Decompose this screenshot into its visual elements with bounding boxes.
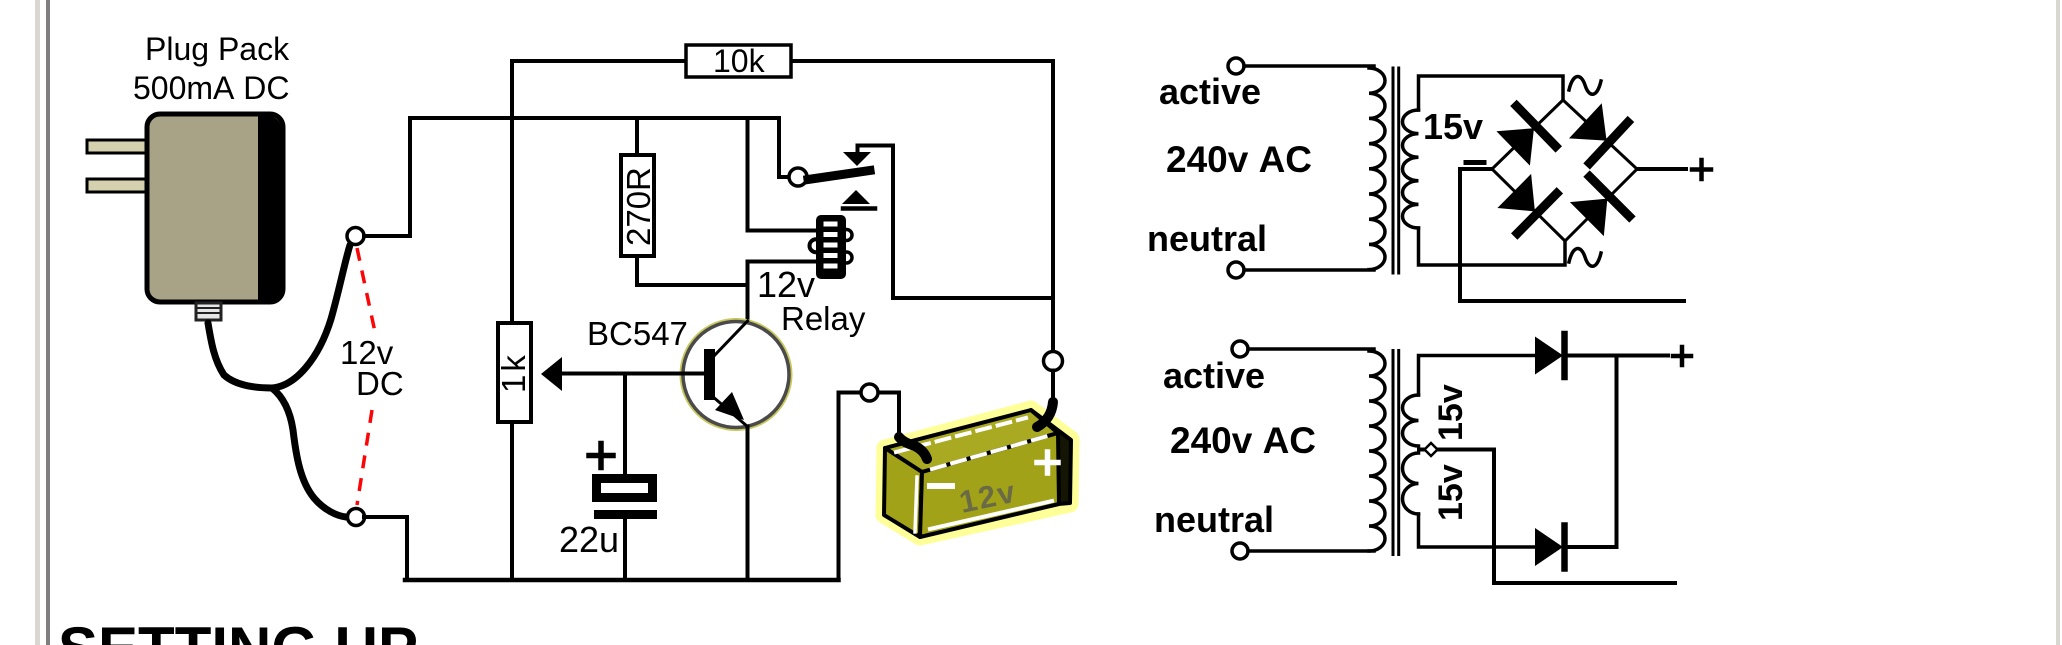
svg-text:neutral: neutral xyxy=(1154,499,1274,540)
bridge AC squiggle bottom xyxy=(1569,249,1601,267)
T1 secondary winding xyxy=(1403,110,1419,228)
base arrow head xyxy=(541,357,562,391)
switch top contact triangle xyxy=(843,152,871,166)
bridge plus sign xyxy=(1692,160,1711,179)
T1 wire active xyxy=(1244,64,1374,68)
T1 wire secondary bottom to bridge xyxy=(1419,228,1566,265)
transistor emitter arrow xyxy=(715,392,744,420)
relay coil body xyxy=(816,215,846,279)
node DC plus terminal xyxy=(347,228,364,245)
left dark table border xyxy=(46,0,50,645)
svg-text:10k: 10k xyxy=(713,43,766,79)
bridge plus output wire xyxy=(1637,167,1686,171)
svg-text:1k: 1k xyxy=(495,352,532,393)
T2 wire secondary bottom to diode xyxy=(1419,514,1536,547)
plug pack cord xyxy=(208,245,350,517)
svg-text:Plug Pack: Plug Pack xyxy=(145,31,290,67)
T1 neutral terminal xyxy=(1228,262,1244,278)
capacitor C1 plus sign xyxy=(589,444,613,468)
node DC minus terminal xyxy=(348,509,365,526)
battery minus lead hook xyxy=(899,437,927,459)
T1 primary winding xyxy=(1369,68,1385,270)
wire capacitor to bottom rail xyxy=(623,519,627,580)
T2 secondary winding lower xyxy=(1403,453,1419,514)
wire top 10k rail xyxy=(512,59,1053,63)
wire base to capacitor xyxy=(623,374,627,475)
switch bottom contact xyxy=(842,190,875,209)
bridge minus output wire xyxy=(1460,169,1684,301)
svg-text:active: active xyxy=(1163,355,1265,396)
T2 centre tap node xyxy=(1425,443,1438,456)
right light table border xyxy=(2056,0,2060,645)
T2 wire neutral xyxy=(1248,549,1374,553)
T2 neutral terminal xyxy=(1232,543,1248,559)
diode D5 top xyxy=(1535,334,1565,377)
switch lever xyxy=(808,171,870,180)
battery right face xyxy=(1031,410,1071,504)
wire diode outputs join xyxy=(1615,356,1619,548)
wire base xyxy=(558,372,704,376)
wire 270R bottom to collector node xyxy=(637,256,748,285)
bridge diamond xyxy=(1492,100,1637,241)
wire battery minus to bottom rail xyxy=(837,393,841,581)
svg-text:240v AC: 240v AC xyxy=(1170,420,1316,461)
label 12v Relay xyxy=(757,264,866,337)
svg-text:neutral: neutral xyxy=(1147,218,1267,259)
wire battery plus lead xyxy=(1051,371,1055,403)
bridge diode D1 top-left xyxy=(1494,106,1556,168)
battery minus sign xyxy=(930,483,952,489)
label Plug Pack xyxy=(133,31,290,106)
svg-text:15v: 15v xyxy=(1423,106,1483,147)
red dashed polarity line xyxy=(357,248,375,505)
svg-text:15v: 15v xyxy=(1432,384,1470,441)
wire top rail xyxy=(410,116,779,120)
battery highlight lines xyxy=(896,418,1052,532)
battery front face xyxy=(920,433,1059,537)
battery plus lead hook xyxy=(1037,402,1053,427)
plug pack cord connector nub xyxy=(196,303,221,320)
battery plus sign xyxy=(1037,452,1058,473)
resistor 10k xyxy=(686,43,791,79)
wire 10k right to battery plus xyxy=(1051,61,1055,352)
bridge diode D3 bottom-left xyxy=(1495,171,1557,233)
battery left face xyxy=(884,448,922,537)
plug pack prongs xyxy=(87,140,149,192)
svg-text:Relay: Relay xyxy=(781,300,866,337)
resistor 1k xyxy=(495,323,532,422)
transistor collector line xyxy=(712,321,748,358)
resistor 270R xyxy=(620,155,657,256)
T2 wire active xyxy=(1248,347,1374,351)
wire emitter to bottom rail xyxy=(746,427,750,581)
heading SETTING UP xyxy=(58,614,418,645)
wire vertical 512 xyxy=(510,61,514,323)
wire plus terminal to top rail xyxy=(364,118,410,236)
capacitor C1 22u xyxy=(594,479,657,520)
battery minus node xyxy=(861,384,878,401)
svg-text:240v AC: 240v AC xyxy=(1166,139,1312,180)
svg-text:12v: 12v xyxy=(757,264,815,305)
D5 output wire xyxy=(1565,354,1668,358)
transistor Q1 BC547 circle xyxy=(681,320,791,430)
diode D6 bottom xyxy=(1535,526,1565,569)
T1 core xyxy=(1393,68,1399,273)
svg-text:15v: 15v xyxy=(1432,464,1470,521)
bridge diode D4 bottom-right xyxy=(1567,177,1629,239)
svg-text:BC547: BC547 xyxy=(587,315,688,352)
svg-text:active: active xyxy=(1159,71,1261,112)
battery B1 glow xyxy=(884,409,1071,537)
T2 active terminal xyxy=(1232,341,1248,357)
left light table border xyxy=(35,0,40,645)
T2 primary winding xyxy=(1369,351,1385,551)
T2 plus sign xyxy=(1673,347,1691,365)
plug pack body xyxy=(147,114,283,303)
relay coil side loops xyxy=(810,230,853,264)
bridge diode D2 top-right xyxy=(1566,100,1628,163)
wire rail to 270R xyxy=(635,118,639,155)
label 12v DC xyxy=(340,334,404,402)
battery minus wire xyxy=(839,393,900,438)
svg-text:500mA DC: 500mA DC xyxy=(133,70,290,106)
T2 wire secondary top to diode xyxy=(1419,356,1536,396)
T1 wire secondary top to bridge xyxy=(1419,76,1564,110)
bridge AC squiggle top xyxy=(1569,77,1601,95)
wire 1k to bottom rail xyxy=(510,422,514,580)
wire rail to relay coil top xyxy=(748,118,817,231)
switch pivot node xyxy=(789,168,807,186)
battery top face xyxy=(885,410,1058,472)
transistor emitter line xyxy=(712,396,748,427)
T1 wire neutral xyxy=(1244,268,1374,272)
T2 core xyxy=(1393,351,1399,555)
battery plus node xyxy=(1044,352,1063,371)
transistor base bar xyxy=(704,349,715,400)
wire minus terminal to bottom rail xyxy=(364,517,407,578)
wire bottom rail xyxy=(405,578,839,583)
bridge minus sign xyxy=(1466,160,1484,165)
svg-text:270R: 270R xyxy=(620,167,657,246)
T2 centre tap wire xyxy=(1419,450,1675,584)
wire relay coil bottom to collector xyxy=(748,262,817,323)
T1 active terminal xyxy=(1228,58,1244,74)
svg-text:22u: 22u xyxy=(559,519,619,560)
T2 secondary winding upper xyxy=(1403,395,1419,446)
svg-text:DC: DC xyxy=(356,365,404,402)
D6 output wire xyxy=(1565,545,1617,549)
wire rail to switch pivot xyxy=(779,118,789,177)
wire switch contact to battery node xyxy=(858,146,1054,299)
